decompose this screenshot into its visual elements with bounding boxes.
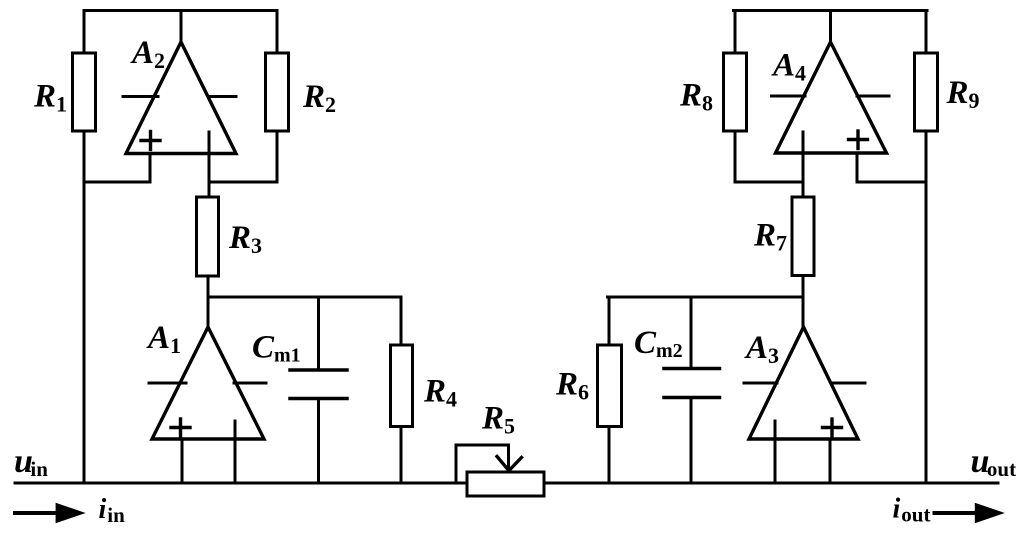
svg-text:R8: R8 [679, 78, 713, 116]
op-amp A3 [749, 327, 858, 439]
wire A3 output apex up to R7 [802, 297, 805, 327]
wire R5 wiper stem [507, 445, 510, 467]
wire Cm2 top lead [690, 297, 693, 369]
wire A4 inverting input lead (tick through base) down to R7 [802, 132, 805, 197]
resistor R2 [266, 53, 289, 131]
svg-text:R4: R4 [423, 374, 457, 412]
svg-text:R2: R2 [302, 79, 336, 117]
i_in arrowhead [56, 503, 86, 524]
resistor R4 [391, 345, 413, 427]
capacitor Cm1 [290, 370, 347, 399]
A2 left input horizontal dash [123, 95, 158, 98]
wire A4 plus input to R9 column [857, 181, 926, 184]
resistor R1 [73, 53, 96, 131]
wire R2 top lead [276, 11, 279, 54]
wire R4 top lead [400, 297, 403, 345]
resistor R5 (rheostat body) [467, 472, 544, 496]
wire A4 inverting input to R8 column [735, 181, 803, 184]
resistor R7 [792, 197, 814, 276]
wire R2 bottom lead [276, 131, 279, 182]
resistor R6 [598, 345, 622, 427]
A1 left input horizontal dash [149, 382, 186, 385]
wire A3 non-inverting input lead to bottom rail [829, 439, 832, 483]
wire right node row from R6 to R7 [608, 296, 804, 299]
wire A2 non-inverting input lead down [149, 154, 152, 183]
wire A4 non-inverting input lead down [856, 153, 859, 182]
A1 plus sign (non-inverting input) [171, 419, 190, 436]
wire R1 top lead [83, 11, 86, 54]
svg-text:R7: R7 [753, 218, 787, 256]
i_in arrow [15, 511, 62, 515]
resistor R3 [197, 197, 219, 276]
A2 plus sign (non-inverting input) [141, 132, 160, 150]
svg-text:A1: A1 [146, 320, 181, 358]
op-amp A2 [126, 42, 236, 154]
wire A1 non-inverting input lead to bottom rail [181, 439, 184, 483]
wire left node row to R4 [208, 296, 401, 299]
wire R9 top lead [925, 11, 928, 54]
wire R5 rheostat strap across [456, 444, 509, 447]
wire A3 inverting input lead (tick through base) to bottom rail [774, 421, 777, 483]
wire bottom rail left [15, 482, 467, 485]
wire R9 bottom column to bottom rail [925, 131, 928, 483]
capacitor Cm2 [664, 369, 720, 398]
A3 left input horizontal dash [744, 382, 777, 385]
A4 plus sign (non-inverting input) [849, 131, 868, 149]
resistor R8 [724, 53, 747, 131]
wire R8 bottom lead [734, 131, 737, 182]
svg-text:iin: iin [99, 494, 126, 527]
svg-text:R1: R1 [33, 79, 67, 117]
svg-text:uout: uout [971, 443, 1017, 481]
svg-text:R9: R9 [946, 75, 980, 113]
wire A2 output to top rail [180, 11, 183, 43]
svg-text:Cm2: Cm2 [634, 325, 683, 362]
svg-text:A4: A4 [771, 48, 806, 86]
i_out arrowhead [975, 503, 1005, 524]
wire Cm1 top lead [317, 297, 320, 370]
resistor R9 [915, 53, 938, 131]
op-amp A4 [776, 42, 887, 153]
svg-text:Cm1: Cm1 [252, 330, 301, 367]
A3 right input horizontal dash [833, 382, 865, 385]
wire R5 rheostat strap up [455, 445, 458, 483]
wire R3 bottom to A1 output apex [207, 276, 210, 327]
svg-text:R6: R6 [555, 367, 589, 405]
wire R6 top lead [608, 297, 611, 345]
i_out arrow [935, 511, 979, 515]
A1 right input horizontal dash [234, 382, 266, 385]
wire Cm1 bottom lead [317, 399, 320, 484]
A4 right input horizontal dash [857, 95, 889, 98]
wire top-right rail [734, 9, 928, 12]
wire top-left rail [84, 9, 277, 12]
svg-text:R3: R3 [228, 220, 262, 258]
R5 wiper arrowhead [497, 457, 522, 471]
wire A2 inverting input lead (tick through base) down to R3 [208, 132, 211, 197]
svg-text:R5: R5 [481, 401, 515, 439]
wire Cm2 bottom lead [690, 398, 693, 484]
A3 plus sign (non-inverting input) [823, 419, 842, 436]
wire A2 inverting input to R2 column [209, 181, 277, 184]
svg-text:A2: A2 [130, 35, 165, 73]
op-amp A1 [152, 327, 264, 439]
wire R4 bottom lead [400, 427, 403, 484]
wire bottom rail right [544, 482, 998, 485]
wire A1 inverting input lead (tick through base) to bottom rail [234, 421, 237, 483]
A4 left input horizontal dash [772, 95, 806, 98]
svg-text:A3: A3 [744, 330, 779, 368]
wire R8 top lead [734, 11, 737, 54]
A2 right input horizontal dash [209, 95, 237, 98]
wire A2 plus input to R1 column [84, 181, 150, 184]
wire R1 bottom column to bottom rail [83, 131, 86, 483]
wire A4 output to top rail [829, 11, 832, 43]
svg-text:iout: iout [893, 494, 931, 527]
wire R6 bottom lead [608, 427, 611, 484]
svg-text:uin: uin [14, 443, 48, 481]
wire R7 bottom lead to node row [802, 276, 805, 298]
